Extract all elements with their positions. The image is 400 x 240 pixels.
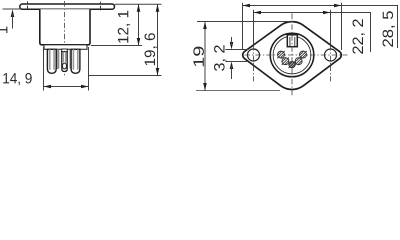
- left hole crosshair: [253, 46, 255, 83]
- left mounting hole: [248, 49, 260, 61]
- hole centerline tick right: [100, 2, 102, 10]
- top extension line (flange top level): [115, 3, 162, 5]
- flange (mounting plate, side view): [20, 4, 115, 9]
- hole centerline tick left: [27, 2, 29, 10]
- pin 2 (bottom): [289, 61, 296, 68]
- dim 19 : top extension line: [197, 21, 293, 23]
- horizontal centerline: [245, 54, 348, 56]
- insulator skirt: [44, 45, 87, 50]
- hidden pin (gray) left-inner: [57, 49, 59, 69]
- dim 22,2 : line + arrows + leader: [254, 12, 331, 14]
- dim 14,9 : extension verticals: [43, 47, 45, 91]
- dim 19,6 : line + arrows: [157, 4, 159, 75]
- dim 3,2 : text: [214, 45, 226, 71]
- dim 22,2 : extension verticals: [253, 10, 255, 45]
- dim 19 : line + arrows: [204, 22, 206, 91]
- center pin hole: [63, 63, 67, 69]
- right mounting hole: [325, 49, 337, 61]
- hidden pin (gray) right-inner: [70, 49, 72, 69]
- dim 1 : arrow + tail: [11, 9, 15, 17]
- dim 12,1 : line + arrows: [138, 4, 140, 45]
- pin 5 (lower-right): [295, 58, 302, 65]
- right solder pin: [71, 49, 80, 73]
- keyway: [287, 35, 297, 47]
- bottom extension line (pin tip level): [89, 75, 162, 77]
- body (shell): [40, 9, 90, 45]
- dim 19 : text: [193, 47, 204, 67]
- dim 3,2 : arrows + tails: [230, 42, 234, 50]
- dim 28,5 : extension verticals: [242, 3, 244, 50]
- dim 14,9 : line + arrows: [44, 86, 89, 88]
- center pin shoulder: [62, 49, 68, 52]
- dim 1 : extension line: [3, 8, 21, 10]
- inner circle: [273, 36, 311, 74]
- dim 22,2 : text: [353, 19, 365, 53]
- dim 28,5 : line + arrows + leader: [243, 5, 342, 7]
- pin 1 (left): [277, 51, 284, 58]
- vertical centerline: [291, 14, 293, 97]
- outer circle (socket collar): [270, 33, 314, 77]
- dim 14,9 : text: [3, 73, 31, 85]
- left solder pin: [47, 49, 56, 73]
- dim 19,6 : text: [145, 33, 157, 65]
- center solder pin: [62, 52, 67, 72]
- dim 19 : bottom extension line: [196, 90, 280, 92]
- diamond flange outline: [243, 22, 342, 90]
- dim 12,1 : text: [118, 11, 130, 43]
- pin 3 (right): [299, 51, 306, 58]
- centerline: [64, 1, 66, 77]
- pin 4 (lower-left): [282, 58, 289, 65]
- right hole crosshair: [330, 46, 332, 83]
- dim 1 : text: [0, 27, 7, 33]
- dim 28,5 : text: [383, 11, 395, 47]
- dim 3,2 : extension lines: [226, 49, 249, 51]
- mid extension line (body bottom level): [91, 45, 142, 47]
